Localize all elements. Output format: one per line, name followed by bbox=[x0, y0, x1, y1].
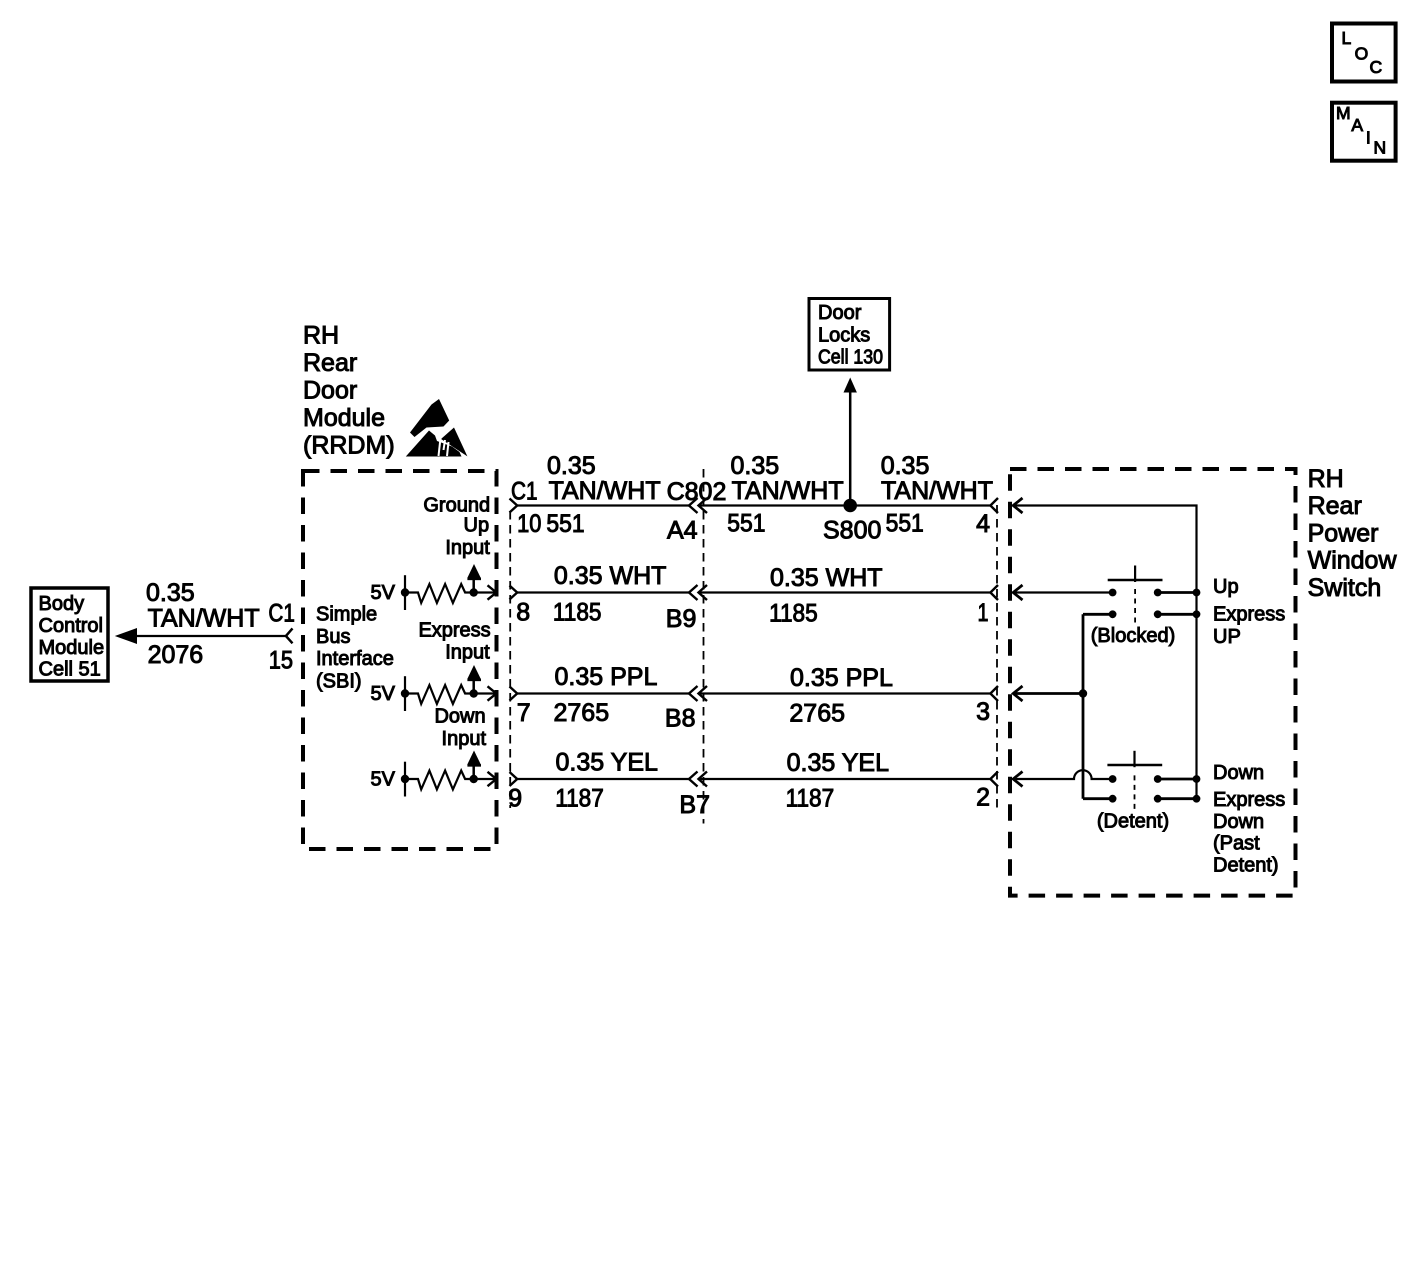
wire Down row right segment bbox=[1158, 778, 1197, 781]
label Express Down (Past Detent) position bbox=[1213, 789, 1285, 876]
node Up contacts bbox=[1109, 589, 1201, 597]
svg-text:RH: RH bbox=[1308, 465, 1344, 493]
module RRDM dashed outline bbox=[303, 471, 497, 849]
node Down contacts bbox=[1109, 775, 1201, 783]
svg-text:Locks: Locks bbox=[818, 324, 870, 346]
svg-text:Window: Window bbox=[1308, 547, 1398, 575]
resistor R3 pull-up bbox=[405, 771, 495, 790]
wire PPL 2765 left segment bbox=[517, 692, 689, 694]
svg-text:B7: B7 bbox=[679, 791, 710, 819]
label RH Rear Power Window Switch bbox=[1308, 465, 1398, 602]
svg-text:B9: B9 bbox=[666, 605, 697, 633]
svg-text:C: C bbox=[1370, 57, 1383, 77]
svg-text:0.35 PPL: 0.35 PPL bbox=[555, 663, 658, 691]
svg-text:N: N bbox=[1374, 138, 1387, 158]
arrowhead Up output to pin bbox=[488, 585, 497, 599]
svg-text:(Detent): (Detent) bbox=[1097, 811, 1169, 833]
wire Up row right segment bbox=[1158, 591, 1197, 594]
arrow into switch at pin2 bbox=[1013, 772, 1022, 787]
connector C1 chevron pin 7 bbox=[510, 687, 518, 701]
node 5V stub Down bbox=[401, 762, 409, 797]
resistor R2 pull-up bbox=[405, 685, 495, 704]
label 0.35 TAN/WHT 551 right bbox=[881, 452, 993, 538]
label Express UP position bbox=[1213, 604, 1285, 648]
svg-text:0.35 YEL: 0.35 YEL bbox=[556, 749, 659, 777]
svg-text:1187: 1187 bbox=[786, 785, 835, 813]
svg-text:Detent): Detent) bbox=[1213, 854, 1279, 876]
svg-text:Down: Down bbox=[1213, 762, 1264, 784]
svg-text:0.35: 0.35 bbox=[547, 452, 596, 480]
connector C1 pin 15 of RRDM bbox=[268, 600, 295, 675]
wire common vertical Express UP to Express Down bbox=[1082, 614, 1085, 798]
arrow into switch at pin4 bbox=[1013, 498, 1022, 513]
svg-text:0.35: 0.35 bbox=[731, 452, 780, 480]
node 5V stub Up bbox=[401, 575, 409, 610]
label 0.35 YEL 1187 left bbox=[555, 749, 658, 813]
up arrow input sense Up bbox=[467, 564, 481, 593]
svg-text:9: 9 bbox=[508, 785, 522, 813]
svg-text:Switch: Switch bbox=[1308, 574, 1382, 602]
svg-text:8: 8 bbox=[516, 599, 530, 627]
svg-text:4: 4 bbox=[976, 510, 990, 538]
arrowhead Express output to pin bbox=[488, 686, 497, 700]
switch connector chevron pin 2 bbox=[990, 772, 998, 787]
connector C802 chevrons pin B8 bbox=[689, 686, 707, 701]
svg-text:I: I bbox=[1366, 127, 1371, 147]
wire row3 to common vertical bbox=[1013, 692, 1083, 695]
svg-text:M: M bbox=[1336, 103, 1351, 123]
svg-text:10: 10 bbox=[517, 510, 541, 538]
svg-text:551: 551 bbox=[886, 510, 924, 538]
svg-text:0.35: 0.35 bbox=[146, 579, 195, 607]
svg-text:TAN/WHT: TAN/WHT bbox=[148, 604, 260, 632]
label Down Input bbox=[434, 706, 486, 750]
wire YEL 1187 right segment bbox=[699, 778, 991, 780]
wire row2 to Up contact bbox=[1013, 591, 1112, 593]
svg-text:2076: 2076 bbox=[148, 641, 204, 669]
switch connector chevron pin 3 bbox=[990, 686, 998, 701]
wire to Door Locks cell bbox=[844, 378, 857, 505]
svg-text:7: 7 bbox=[517, 699, 531, 727]
svg-text:TAN/WHT: TAN/WHT bbox=[881, 477, 993, 505]
svg-text:S800: S800 bbox=[823, 517, 881, 545]
label 0.35 TAN/WHT 551 left bbox=[546, 452, 660, 538]
label 0.35 PPL 2765 left bbox=[554, 663, 658, 727]
svg-text:Module: Module bbox=[303, 404, 385, 432]
svg-text:Up: Up bbox=[1213, 576, 1239, 598]
arrow into switch at pin3 bbox=[1013, 686, 1022, 701]
svg-text:0.35: 0.35 bbox=[881, 452, 930, 480]
svg-text:5V: 5V bbox=[371, 582, 396, 604]
svg-text:Rear: Rear bbox=[1308, 492, 1362, 520]
svg-text:1185: 1185 bbox=[769, 600, 818, 628]
svg-text:Power: Power bbox=[1308, 519, 1379, 547]
svg-text:0.35 YEL: 0.35 YEL bbox=[787, 749, 890, 777]
connector C802 dashed line bbox=[703, 469, 705, 824]
wire Express UP left segment bbox=[1083, 613, 1113, 616]
switch S2 Down/Express Down bar bbox=[1107, 751, 1162, 810]
connector C1 dashed line bbox=[509, 511, 511, 808]
svg-text:A: A bbox=[1351, 115, 1363, 135]
svg-text:Input: Input bbox=[442, 728, 487, 750]
label Up Input bbox=[445, 515, 490, 559]
node junction dot on R2 output bbox=[470, 689, 478, 697]
svg-text:Down: Down bbox=[1213, 811, 1264, 833]
node junction row3 on common bbox=[1079, 689, 1087, 697]
label 0.35 WHT 1185 right bbox=[769, 564, 882, 628]
svg-text:2765: 2765 bbox=[789, 700, 845, 728]
svg-text:Ground: Ground bbox=[423, 495, 490, 517]
node junction dot on R1 output bbox=[470, 588, 478, 596]
svg-text:RH: RH bbox=[303, 322, 339, 350]
svg-text:(SBI): (SBI) bbox=[316, 671, 362, 693]
wire WHT 1185 left segment bbox=[517, 591, 689, 593]
wire TAN/WHT 551 left segment bbox=[517, 504, 689, 506]
svg-text:Down: Down bbox=[434, 706, 485, 728]
arrow into switch at pin1 bbox=[1013, 585, 1022, 600]
svg-text:Cell 51: Cell 51 bbox=[39, 659, 101, 681]
svg-text:1185: 1185 bbox=[553, 599, 602, 627]
wire WHT 1185 right segment bbox=[699, 591, 991, 593]
label Express Input bbox=[418, 619, 490, 663]
svg-text:551: 551 bbox=[546, 510, 584, 538]
svg-text:5V: 5V bbox=[371, 769, 396, 791]
box MAIN bbox=[1332, 103, 1396, 161]
connector C1 chevron pin 10 bbox=[510, 499, 518, 513]
up arrow input sense Down bbox=[467, 751, 481, 780]
connector C802 chevrons pin A4 bbox=[689, 498, 707, 513]
connector C1 chevron pin 9 bbox=[510, 772, 518, 786]
wire Express Down right segment bbox=[1158, 797, 1197, 800]
node 5V stub Express bbox=[401, 676, 409, 711]
svg-text:Bus: Bus bbox=[316, 626, 350, 648]
label RH Rear Door Module (RRDM) bbox=[303, 322, 395, 460]
svg-text:L: L bbox=[1342, 28, 1352, 48]
svg-text:C1: C1 bbox=[268, 600, 295, 628]
switch connector chevron pin 4 bbox=[990, 498, 998, 513]
svg-text:UP: UP bbox=[1213, 626, 1241, 648]
svg-text:Body: Body bbox=[39, 593, 85, 615]
svg-text:2: 2 bbox=[976, 784, 990, 812]
wire serial data 2076 to BCM bbox=[115, 628, 293, 644]
node junction dot on R3 output bbox=[470, 775, 478, 783]
svg-text:Input: Input bbox=[445, 537, 490, 559]
svg-text:Door: Door bbox=[818, 302, 862, 324]
label wire 0.35 TAN/WHT 2076 bbox=[146, 579, 260, 669]
svg-text:Interface: Interface bbox=[316, 648, 394, 670]
svg-text:Door: Door bbox=[303, 377, 357, 405]
svg-text:Simple: Simple bbox=[316, 604, 377, 626]
svg-text:0.35 WHT: 0.35 WHT bbox=[770, 564, 883, 592]
wire PPL 2765 right segment bbox=[699, 692, 991, 694]
wire Express UP right segment bbox=[1158, 613, 1197, 616]
svg-text:Input: Input bbox=[445, 642, 490, 664]
label 0.35 PPL 2765 right bbox=[789, 664, 893, 728]
wire row4 with hop to Down contact bbox=[1013, 770, 1112, 779]
up arrow input sense Express bbox=[467, 665, 481, 694]
module Door Locks Cell 130 bbox=[809, 299, 890, 371]
svg-text:1187: 1187 bbox=[555, 785, 604, 813]
connector of switch dashed line bbox=[996, 505, 998, 812]
svg-text:(Blocked): (Blocked) bbox=[1091, 625, 1175, 647]
node Express Down contacts bbox=[1109, 795, 1201, 803]
svg-text:2765: 2765 bbox=[554, 699, 610, 727]
wire row1 into switch and down right side bbox=[1013, 506, 1196, 799]
label 0.35 WHT 1185 left bbox=[553, 562, 667, 627]
connector C802 chevrons pin B9 bbox=[689, 585, 707, 600]
svg-text:Rear: Rear bbox=[303, 349, 357, 377]
node Express UP contacts bbox=[1109, 610, 1201, 618]
svg-text:15: 15 bbox=[269, 646, 293, 674]
svg-text:5V: 5V bbox=[371, 683, 396, 705]
wire Express Down left segment bbox=[1083, 797, 1113, 800]
wire YEL 1187 left segment bbox=[517, 778, 689, 780]
arrowhead Down output to pin bbox=[488, 772, 497, 786]
ESD sensitive device symbol bbox=[406, 399, 468, 457]
box LOC bbox=[1332, 24, 1396, 82]
svg-text:B8: B8 bbox=[665, 705, 696, 733]
label 0.35 TAN/WHT 551 middle bbox=[727, 452, 843, 538]
svg-text:O: O bbox=[1355, 44, 1369, 64]
label 0.35 YEL 1187 right bbox=[786, 749, 890, 813]
svg-text:0.35 PPL: 0.35 PPL bbox=[790, 664, 893, 692]
svg-text:Express: Express bbox=[1213, 789, 1285, 811]
svg-text:Cell 130: Cell 130 bbox=[818, 347, 883, 369]
connector C802 chevrons pin B7 bbox=[689, 772, 707, 787]
svg-text:C802: C802 bbox=[667, 478, 727, 506]
svg-text:Express: Express bbox=[1213, 604, 1285, 626]
svg-text:3: 3 bbox=[976, 698, 990, 726]
module RH Rear Power Window Switch dashed outline bbox=[1010, 469, 1296, 896]
node S800 splice bbox=[843, 499, 857, 513]
svg-text:Express: Express bbox=[418, 619, 490, 641]
svg-text:C1: C1 bbox=[511, 478, 538, 506]
svg-text:TAN/WHT: TAN/WHT bbox=[732, 477, 844, 505]
resistor R1 pull-up bbox=[405, 584, 495, 603]
label Simple Bus Interface (SBI) bbox=[316, 604, 394, 693]
svg-text:TAN/WHT: TAN/WHT bbox=[549, 477, 661, 505]
wire TAN/WHT 551 right segment bbox=[699, 504, 991, 506]
svg-text:551: 551 bbox=[727, 510, 765, 538]
svg-text:Control: Control bbox=[39, 615, 103, 637]
connector C1 chevron pin 8 bbox=[510, 586, 518, 600]
svg-text:Module: Module bbox=[39, 637, 105, 659]
svg-text:(RRDM): (RRDM) bbox=[303, 432, 395, 460]
svg-text:(Past: (Past bbox=[1213, 833, 1260, 855]
switch connector chevron pin 1 bbox=[990, 585, 998, 600]
svg-text:0.35 WHT: 0.35 WHT bbox=[554, 562, 667, 590]
svg-text:Up: Up bbox=[464, 515, 490, 537]
module U1 Body Control Module Cell 51 bbox=[31, 588, 108, 681]
svg-text:A4: A4 bbox=[667, 517, 698, 545]
svg-text:1: 1 bbox=[978, 599, 989, 627]
switch S1 Up/Express UP bar bbox=[1108, 566, 1163, 625]
